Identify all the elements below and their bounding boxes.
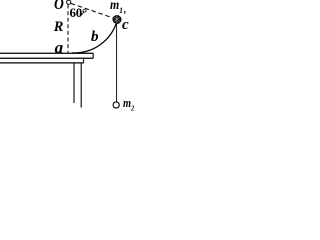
stray mark near m1 subscript	[124, 11, 126, 14]
node a label	[55, 39, 64, 56]
string from c to m2	[116, 24, 118, 102]
wire: dashed radius O-c (slanted)	[71, 3, 113, 17]
table top surface line	[0, 52, 93, 54]
wire: dashed radius O-a (vertical)	[67, 5, 69, 53]
ball m1 at c (hatched)	[113, 15, 121, 23]
table top slab right edge	[92, 53, 94, 58]
node b label	[91, 30, 99, 45]
node O label	[54, 0, 64, 13]
table leg (front)	[80, 63, 82, 108]
table apron right edge	[83, 58, 85, 63]
table slab bottom line	[0, 57, 93, 59]
label m2	[123, 96, 134, 112]
label m1	[110, 0, 123, 15]
value label 60 degrees	[70, 6, 87, 19]
curved track b	[72, 24, 116, 53]
pivot O circle	[67, 0, 71, 4]
table apron bottom line	[0, 62, 84, 64]
node c label	[122, 18, 129, 33]
table leg (back)	[73, 63, 75, 103]
ball m2 (open circle)	[113, 102, 119, 108]
angle arc 60 degrees	[80, 11, 84, 16]
value label R	[54, 20, 64, 35]
